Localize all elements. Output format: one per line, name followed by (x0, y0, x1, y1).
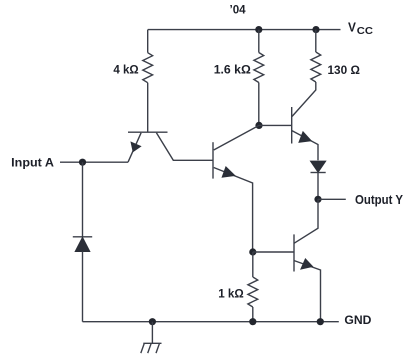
VCC rail wire (148, 29, 341, 31)
node Q4 base junction dot (249, 248, 256, 255)
diode D1 cathode bar (73, 236, 92, 238)
wire R1 top stub (147, 30, 149, 53)
svg-text:CC: CC (357, 26, 373, 37)
transistor Q4 emitter (294, 261, 320, 322)
wire R3 top stub (315, 30, 317, 52)
wire R1 bottom to Q1 base (147, 83, 149, 132)
svg-text:4 kΩ: 4 kΩ (113, 63, 138, 77)
node output junction dot (314, 196, 321, 203)
ground rail wire (83, 321, 339, 323)
wire ground stub (151, 322, 153, 344)
svg-text:’04: ’04 (230, 3, 246, 17)
diode D2 triangle (311, 161, 326, 172)
node ground rail junction dot Q4 (317, 318, 324, 325)
resistor R2 1.6 kOhm (254, 53, 264, 83)
wire R4 top stub (252, 252, 254, 277)
node top rail junction dot R2 (255, 26, 262, 33)
wire D1 to ground rail (82, 251, 84, 321)
transistor Q3 emitter arrow (299, 132, 311, 143)
resistor R3 130 Ohm (311, 52, 321, 82)
resistor R1 4 kOhm (143, 53, 153, 83)
wire Q4 base lead (253, 251, 294, 253)
transistor Q2 emitter arrow (222, 167, 235, 177)
wire D2 to output node (317, 172, 319, 199)
transistor Q1 emitter (128, 133, 141, 162)
diode D1 triangle (75, 237, 90, 251)
node ground stub junction dot (149, 318, 156, 325)
resistor R4 1 kOhm (248, 277, 258, 307)
node top rail junction dot R3 (312, 26, 319, 33)
transistor Q1 base bar (128, 131, 168, 133)
wire output to Q4 collector (294, 199, 318, 243)
transistor Q3 base bar (291, 107, 293, 144)
svg-text:V: V (348, 19, 356, 34)
wire output (318, 198, 346, 200)
transistor Q1 emitter arrow (131, 142, 141, 151)
wire input (60, 161, 128, 163)
svg-text:GND: GND (344, 313, 371, 327)
transistor Q4 base bar (293, 234, 295, 271)
svg-text:Input A: Input A (11, 155, 54, 169)
transistor Q3 emitter (292, 131, 318, 161)
wire R3 bottom to Q3 collector (292, 82, 316, 117)
VCC label (348, 19, 373, 37)
transistor Q2 base bar (212, 142, 214, 178)
transistor Q2 emitter (214, 168, 253, 253)
diode D2 cathode bar (311, 172, 326, 174)
ground symbol (141, 343, 162, 353)
node ground rail junction dot R4 (249, 318, 256, 325)
transistor Q2 collector (214, 125, 259, 150)
svg-text:Output Y: Output Y (355, 193, 403, 207)
wire R4 bottom stub (252, 307, 254, 322)
node input junction dot (79, 159, 86, 166)
wire node to Q3 base (259, 124, 292, 126)
svg-text:130 Ω: 130 Ω (328, 63, 360, 77)
transistor Q1 collector (156, 133, 213, 161)
wire input drop (82, 162, 84, 237)
wire R2 top stub (258, 30, 260, 53)
node phase splitter junction dot (255, 122, 262, 129)
wire R2 bottom to node (258, 83, 260, 126)
svg-text:1 kΩ: 1 kΩ (218, 287, 244, 301)
transistor Q4 emitter arrow (301, 259, 313, 269)
svg-text:1.6 kΩ: 1.6 kΩ (214, 63, 251, 77)
